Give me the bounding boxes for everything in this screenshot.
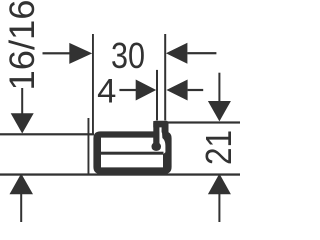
inner detail line of rail (101, 152, 164, 155)
4 right arrow tail (188, 89, 204, 91)
slot white gap (159, 127, 161, 133)
21 lower tail (218, 194, 220, 222)
arrowhead up 16/16 (10, 174, 34, 195)
arrowhead down 16/16 (11, 113, 34, 133)
svg-text:4: 4 (97, 73, 116, 111)
30 right arrow tail (187, 52, 216, 54)
wall rail profile outer ring (93, 127, 171, 174)
extension line top-left y134 (0, 133, 94, 135)
extension line bottom full width (0, 173, 240, 175)
dimension tail below left arrow (20, 194, 22, 222)
30 right arrowhead (166, 43, 188, 64)
30 left arrow tail (43, 52, 70, 54)
4 left arrow tail (119, 89, 136, 91)
4 left arrowhead (136, 80, 157, 101)
hook tongue (153, 121, 159, 149)
hook wall bridge (162, 126, 169, 133)
extension line top-right y122 (168, 121, 240, 123)
30 left arrowhead (69, 43, 92, 64)
hidden edge line left x88.5 (88, 118, 90, 174)
21 upper tail (218, 73, 220, 102)
4 right arrowhead (166, 80, 187, 101)
21 arrowhead down (208, 101, 231, 121)
extension line A x93 (92, 34, 94, 134)
extension line C x157 (156, 70, 158, 121)
svg-text:16/16: 16/16 (2, 0, 42, 91)
extension line B x165 (164, 34, 166, 120)
hook foot (152, 142, 162, 151)
21 arrowhead up (208, 174, 231, 195)
svg-text:21: 21 (198, 130, 239, 165)
dimension line 16/16 tail (21, 88, 23, 114)
hook cap (153, 121, 168, 128)
svg-text:30: 30 (111, 35, 145, 76)
